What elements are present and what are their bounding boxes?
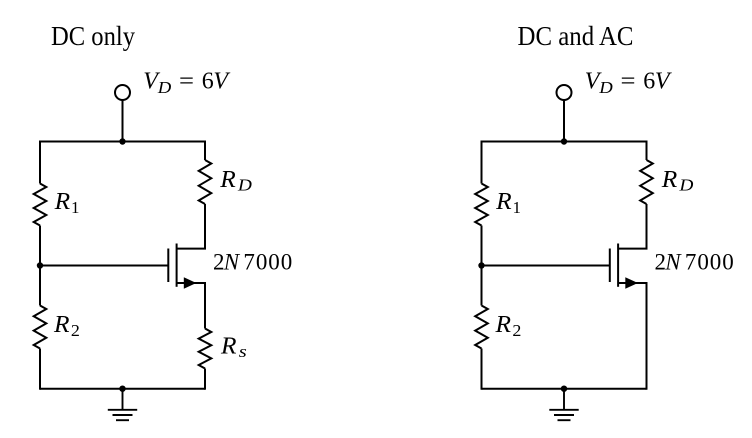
ground a bbox=[108, 389, 137, 421]
wire: supply stem b bbox=[563, 100, 565, 142]
resistor RD b bbox=[640, 160, 653, 204]
svg-text:R2: R2 bbox=[53, 312, 80, 340]
wire: left rail middle a bbox=[39, 226, 41, 306]
wire: top rail a bbox=[40, 141, 205, 143]
ground b bbox=[549, 389, 578, 421]
resistor R1 b bbox=[475, 184, 488, 226]
node junction: supply-top rail a bbox=[119, 138, 125, 144]
svg-text:Rs: Rs bbox=[220, 333, 247, 361]
wire: source lead vertical a bbox=[204, 282, 206, 329]
wire: left rail lower b bbox=[481, 349, 483, 390]
wire: supply stem a bbox=[122, 100, 124, 142]
resistor R2 b bbox=[475, 306, 488, 349]
svg-text:DC and AC: DC and AC bbox=[518, 21, 634, 51]
svg-text:RD: RD bbox=[661, 167, 694, 195]
transistor Q1 channel bar a bbox=[176, 244, 178, 287]
svg-text:R2: R2 bbox=[494, 312, 521, 340]
node junction: gate-left rail b bbox=[478, 262, 484, 268]
node junction: gate-left rail a bbox=[37, 262, 43, 268]
node junction: supply-top rail b bbox=[561, 138, 567, 144]
wire: top rail b bbox=[482, 141, 647, 143]
svg-text:R1: R1 bbox=[495, 189, 521, 217]
wire: drain branch upper b bbox=[646, 141, 648, 161]
supply terminal circle b bbox=[557, 85, 572, 100]
resistor RD a bbox=[199, 160, 212, 204]
wire: left rail upper b bbox=[481, 141, 483, 184]
transistor Q1 gate bar a bbox=[167, 249, 169, 283]
supply terminal circle a bbox=[115, 85, 130, 100]
wire: bottom rail a bbox=[40, 388, 205, 390]
wire: source lead horizontal b bbox=[618, 282, 646, 284]
wire: drain lead b bbox=[618, 204, 646, 249]
wire: gate lead a bbox=[40, 265, 168, 267]
wire: source lead horizontal a bbox=[177, 282, 205, 284]
transistor Q2 gate bar b bbox=[609, 249, 611, 283]
node junction: ground-bottom rail a bbox=[119, 386, 125, 392]
resistor R1 a bbox=[34, 184, 47, 226]
svg-text:VD=6V: VD=6V bbox=[585, 69, 672, 97]
wire: source lead vertical b bbox=[646, 282, 648, 390]
svg-text:2N7000: 2N7000 bbox=[213, 250, 293, 275]
wire: left rail upper a bbox=[39, 141, 41, 184]
resistor Rs a bbox=[199, 329, 212, 369]
svg-text:DC only: DC only bbox=[51, 21, 135, 51]
svg-text:VD=6V: VD=6V bbox=[143, 69, 230, 97]
node junction: ground-bottom rail b bbox=[561, 386, 567, 392]
wire: left rail middle b bbox=[481, 226, 483, 306]
wire: source branch lower a bbox=[204, 369, 206, 390]
wire: left rail lower a bbox=[39, 349, 41, 390]
resistor R2 a bbox=[34, 306, 47, 349]
transistor Q2 channel bar b bbox=[617, 244, 619, 287]
transistor Q2 source arrow b bbox=[625, 277, 638, 288]
svg-text:RD: RD bbox=[219, 167, 252, 195]
wire: drain lead a bbox=[177, 204, 205, 249]
svg-text:R1: R1 bbox=[54, 189, 80, 217]
wire: bottom rail b bbox=[482, 388, 647, 390]
svg-text:2N7000: 2N7000 bbox=[655, 250, 735, 275]
transistor Q1 source arrow a bbox=[184, 277, 197, 288]
wire: drain branch upper a bbox=[204, 141, 206, 161]
wire: gate lead b bbox=[482, 265, 610, 267]
